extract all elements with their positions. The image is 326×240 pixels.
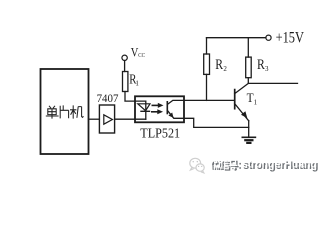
T1 emitter arrowhead [241, 111, 247, 118]
svg-text:+15V: +15V [276, 30, 305, 47]
svg-text:1: 1 [135, 80, 139, 88]
T1 emitter [235, 104, 249, 121]
wire R1 to LED anode [125, 92, 146, 120]
light arrow 2 [151, 109, 163, 114]
wire 7407 to optocoupler LED cathode [115, 118, 146, 120]
label 单片机 (hand-drawn glyphs) [46, 105, 84, 118]
phototransistor collector wire to R2 node and T1 base [167, 100, 234, 104]
wire emitter to ground [248, 121, 250, 137]
svg-text:TLP521: TLP521 [140, 125, 180, 140]
buffer U2 7407 box [99, 105, 114, 133]
output wire [248, 82, 297, 84]
svg-text:7407: 7407 [97, 92, 119, 105]
svg-text:strongerHuang: strongerHuang [242, 159, 317, 171]
watermark colon [239, 163, 241, 169]
resistor R1 [123, 72, 128, 92]
svg-text:3: 3 [265, 65, 269, 73]
svg-text:1: 1 [254, 98, 258, 106]
wire MCU to 7407 [89, 118, 100, 120]
LED cathode bar [141, 110, 150, 112]
wire R2 to base wire [206, 74, 208, 100]
svg-text:CC: CC [138, 52, 145, 59]
wire rail to R3 [247, 38, 249, 57]
wire rail to R2 [206, 38, 208, 54]
ground [242, 136, 255, 138]
+15V rail [207, 37, 266, 39]
phototransistor emitter wire with arrow, to ground node [167, 110, 248, 127]
svg-text:2: 2 [223, 65, 227, 73]
transistor T1 base bar [234, 90, 236, 109]
wire R3 to collector node [247, 78, 249, 84]
optocoupler U1 TLP521 box [135, 96, 184, 122]
T1 collector [235, 83, 249, 93]
+15V terminal [266, 35, 271, 40]
Vcc terminal [122, 55, 127, 60]
svg-text:R: R [257, 57, 265, 73]
svg-text:R: R [215, 57, 223, 73]
watermark emboss (white copy offset up-left) [211, 159, 238, 169]
watermark wechat icon [190, 158, 204, 173]
resistor R3 [246, 57, 252, 78]
phototransistor emitter arrowhead [168, 113, 173, 118]
light arrow 1 [152, 103, 164, 108]
MCU box 单片机 [41, 69, 89, 154]
phototransistor bar [166, 102, 168, 114]
wire Vcc to R1 [124, 61, 126, 72]
buffer triangle [104, 115, 113, 124]
resistor R2 [204, 54, 210, 74]
LED (inside optocoupler) [138, 104, 150, 111]
watermark label 微信号: (hand-drawn glyphs) [212, 161, 239, 171]
